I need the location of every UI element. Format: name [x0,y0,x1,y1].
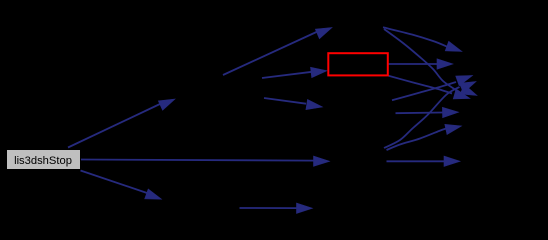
edge red node->node4b [389,63,438,65]
arrowhead of edge lis3dshStop->node2 [158,99,175,110]
arrowhead of edge lis3dshStop->node11 [145,189,162,199]
edge node11->node12 [240,207,298,209]
edge node2->node6 [264,98,306,104]
arrowhead of edge lis3dshStop->node8 [314,156,330,166]
edge lis3dshStop->node8 [81,160,314,161]
edge node8->node5 (curve up) [384,87,460,148]
edge lis3dshStop->node11 [81,171,148,194]
edge node2->red node [262,72,312,78]
edge node3->node4 [383,27,448,47]
arrowhead of edge node8->node9 [445,124,462,134]
node lis3dshStop (grey current-function node) [7,150,81,170]
arrowhead of edge lis3dshStop->node3 (upper, reappears past node2) [315,28,332,39]
edge node6->node7 [396,112,443,115]
edge lis3dshStop->node3 (upper, reappears past node2) [223,32,318,76]
arrowhead of edge node3->node4 [445,41,462,51]
arrowhead of edge node2->node6 [306,99,323,109]
arrowhead of edge node3->node5 (curve down) [460,84,477,95]
edge node8->node9 [387,129,447,151]
arrowhead of edge node8->node5 (curve up) [459,82,476,93]
arrowhead of edge node2->red node [311,67,328,77]
edge node3->node5 (curve down) [384,29,456,90]
red-outlined node (truncated graph node) [328,53,388,75]
arrowhead of edge red node->node5 [453,89,470,99]
arrowhead of edge node8->node10 [444,156,460,166]
arrowhead of edge node6->node7 [442,107,458,117]
edge red node->node5 [389,76,453,94]
arrowhead of edge node6->node5 (up) [456,76,473,86]
svg-text:lis3dshStop: lis3dshStop [14,155,72,167]
edge node8->node10 [387,160,445,162]
edge node6->node5 (up) [392,82,456,100]
edge lis3dshStop->node2 [68,104,161,148]
arrowhead of edge red node->node4b [437,59,453,69]
arrowhead of edge node11->node12 [297,203,313,213]
